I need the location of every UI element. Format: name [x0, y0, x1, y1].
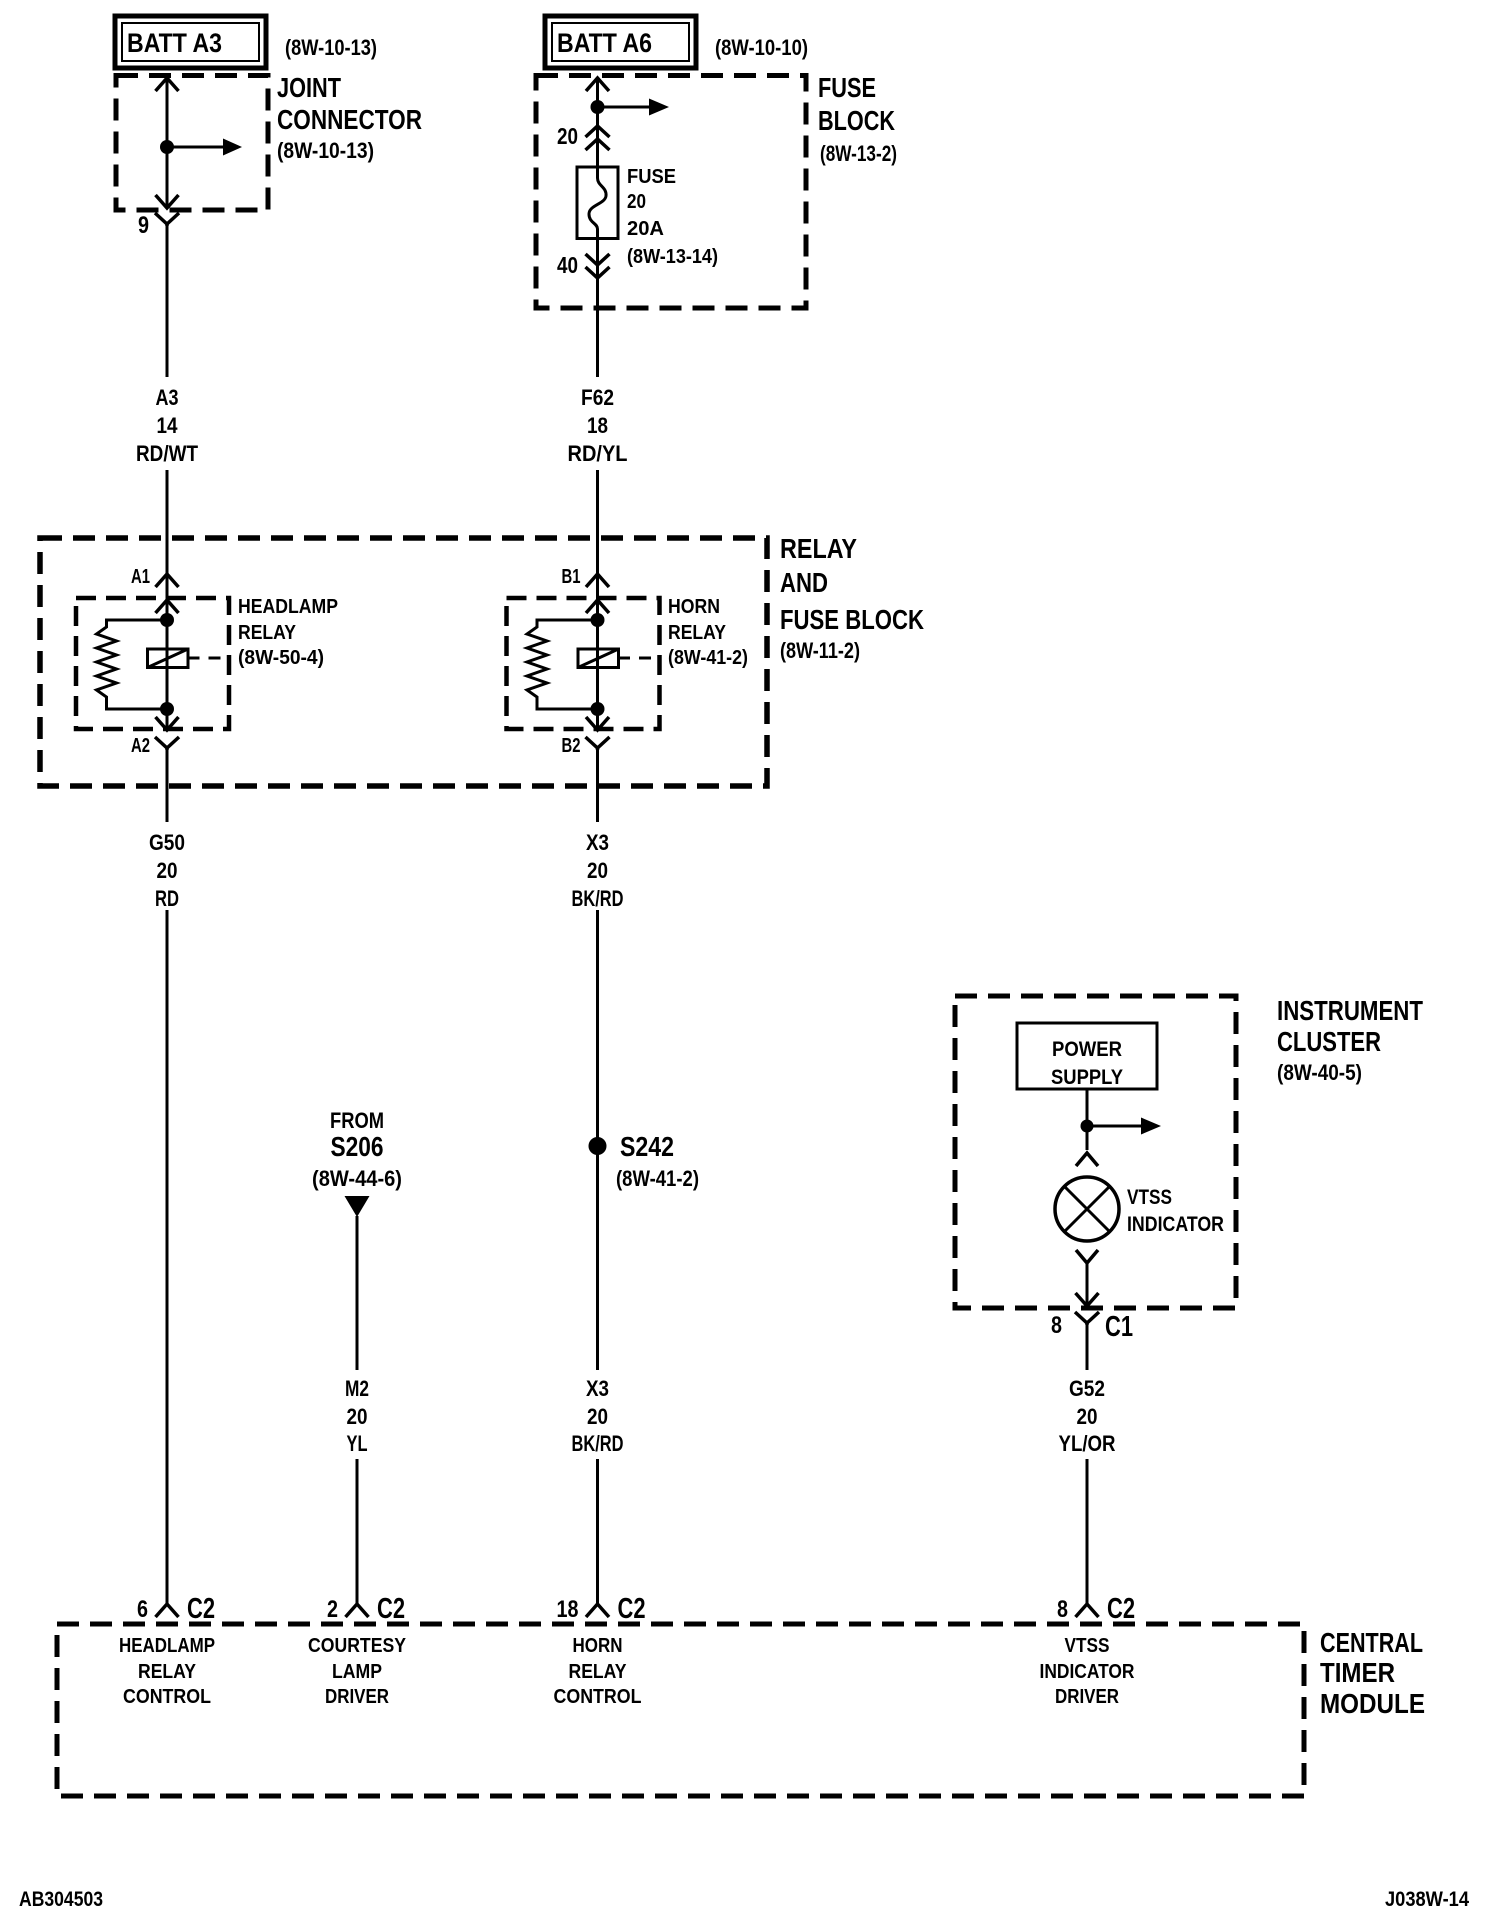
- svg-text:YL: YL: [347, 1431, 368, 1456]
- svg-text:C1: C1: [1105, 1311, 1133, 1343]
- svg-text:JOINT: JOINT: [277, 72, 341, 103]
- svg-text:F62: F62: [581, 385, 614, 410]
- svg-text:RELAY: RELAY: [138, 1661, 197, 1683]
- svg-text:(8W-13-14): (8W-13-14): [627, 246, 718, 268]
- svg-text:8: 8: [1057, 1596, 1068, 1623]
- svg-text:(8W-13-2): (8W-13-2): [820, 141, 897, 166]
- svg-text:20A: 20A: [627, 218, 664, 240]
- svg-text:S206: S206: [331, 1131, 384, 1162]
- svg-text:14: 14: [157, 413, 179, 438]
- svg-text:20: 20: [627, 191, 646, 213]
- svg-text:20: 20: [347, 1404, 368, 1429]
- svg-text:DRIVER: DRIVER: [325, 1686, 389, 1708]
- svg-text:8: 8: [1051, 1312, 1062, 1339]
- svg-text:G52: G52: [1069, 1376, 1105, 1401]
- svg-text:20: 20: [557, 123, 578, 149]
- svg-text:HORN: HORN: [668, 596, 720, 618]
- svg-text:AB304503: AB304503: [19, 1888, 103, 1911]
- svg-text:CENTRAL: CENTRAL: [1320, 1627, 1423, 1658]
- svg-text:6: 6: [137, 1596, 148, 1623]
- svg-text:COURTESY: COURTESY: [308, 1635, 407, 1657]
- svg-text:(8W-44-6): (8W-44-6): [312, 1166, 402, 1191]
- svg-text:BK/RD: BK/RD: [572, 1431, 624, 1456]
- svg-text:AND: AND: [780, 567, 828, 598]
- svg-text:CONTROL: CONTROL: [554, 1686, 642, 1708]
- svg-text:(8W-41-2): (8W-41-2): [616, 1166, 699, 1191]
- svg-text:FUSE BLOCK: FUSE BLOCK: [780, 604, 924, 635]
- svg-text:CONTROL: CONTROL: [123, 1686, 211, 1708]
- svg-text:X3: X3: [586, 1376, 609, 1401]
- svg-text:B1: B1: [562, 566, 581, 588]
- svg-text:MODULE: MODULE: [1320, 1688, 1425, 1719]
- svg-text:C2: C2: [377, 1593, 405, 1625]
- svg-text:20: 20: [1077, 1404, 1098, 1429]
- svg-text:(8W-40-5): (8W-40-5): [1277, 1060, 1362, 1085]
- svg-text:TIMER: TIMER: [1320, 1657, 1395, 1688]
- svg-text:M2: M2: [345, 1376, 369, 1401]
- svg-text:(8W-11-2): (8W-11-2): [780, 638, 860, 663]
- svg-text:40: 40: [557, 252, 578, 278]
- svg-text:BK/RD: BK/RD: [572, 886, 624, 911]
- svg-text:CONNECTOR: CONNECTOR: [277, 104, 422, 135]
- svg-text:2: 2: [327, 1596, 338, 1623]
- svg-text:C2: C2: [1107, 1593, 1135, 1625]
- svg-text:RELAY: RELAY: [668, 622, 727, 644]
- svg-text:HEADLAMP: HEADLAMP: [119, 1635, 215, 1657]
- svg-text:VTSS: VTSS: [1065, 1635, 1110, 1657]
- svg-text:POWER: POWER: [1052, 1038, 1122, 1061]
- svg-text:RD/YL: RD/YL: [568, 441, 628, 466]
- svg-text:C2: C2: [618, 1593, 646, 1625]
- svg-text:18: 18: [587, 413, 608, 438]
- svg-text:BLOCK: BLOCK: [818, 105, 895, 136]
- svg-text:RELAY: RELAY: [569, 1661, 628, 1683]
- svg-text:(8W-41-2): (8W-41-2): [668, 647, 748, 669]
- svg-text:YL/OR: YL/OR: [1059, 1431, 1116, 1456]
- svg-text:FUSE: FUSE: [818, 72, 876, 103]
- svg-text:X3: X3: [586, 830, 609, 855]
- svg-text:J038W-14: J038W-14: [1385, 1888, 1469, 1911]
- svg-text:HORN: HORN: [573, 1635, 623, 1657]
- svg-text:LAMP: LAMP: [332, 1661, 382, 1683]
- svg-text:INDICATOR: INDICATOR: [1127, 1213, 1224, 1236]
- svg-text:RELAY: RELAY: [780, 533, 857, 564]
- svg-text:INDICATOR: INDICATOR: [1040, 1661, 1135, 1683]
- svg-text:FROM: FROM: [330, 1108, 384, 1133]
- svg-text:SUPPLY: SUPPLY: [1051, 1066, 1123, 1089]
- svg-text:(8W-10-10): (8W-10-10): [715, 35, 808, 60]
- svg-text:(8W-10-13): (8W-10-13): [285, 35, 377, 60]
- svg-text:FUSE: FUSE: [627, 166, 676, 188]
- svg-text:BATT A3: BATT A3: [127, 28, 222, 58]
- svg-text:C2: C2: [187, 1593, 215, 1625]
- svg-text:S242: S242: [620, 1131, 674, 1162]
- svg-text:CLUSTER: CLUSTER: [1277, 1026, 1381, 1057]
- svg-text:A1: A1: [131, 566, 150, 588]
- svg-text:HEADLAMP: HEADLAMP: [238, 596, 338, 618]
- svg-text:20: 20: [157, 858, 178, 883]
- svg-text:(8W-10-13): (8W-10-13): [277, 138, 374, 163]
- svg-text:BATT A6: BATT A6: [557, 28, 652, 58]
- svg-text:RD/WT: RD/WT: [136, 441, 198, 466]
- svg-text:9: 9: [138, 212, 149, 239]
- svg-text:VTSS: VTSS: [1127, 1186, 1172, 1209]
- svg-text:DRIVER: DRIVER: [1055, 1686, 1119, 1708]
- svg-text:G50: G50: [149, 830, 185, 855]
- svg-text:RD: RD: [155, 886, 179, 911]
- svg-text:RELAY: RELAY: [238, 622, 297, 644]
- svg-text:18: 18: [557, 1596, 579, 1623]
- svg-text:A2: A2: [131, 735, 150, 757]
- svg-text:A3: A3: [156, 385, 179, 410]
- svg-text:INSTRUMENT: INSTRUMENT: [1277, 995, 1423, 1026]
- svg-text:(8W-50-4): (8W-50-4): [238, 647, 324, 669]
- svg-text:20: 20: [587, 858, 608, 883]
- svg-text:20: 20: [587, 1404, 608, 1429]
- svg-text:B2: B2: [562, 735, 581, 757]
